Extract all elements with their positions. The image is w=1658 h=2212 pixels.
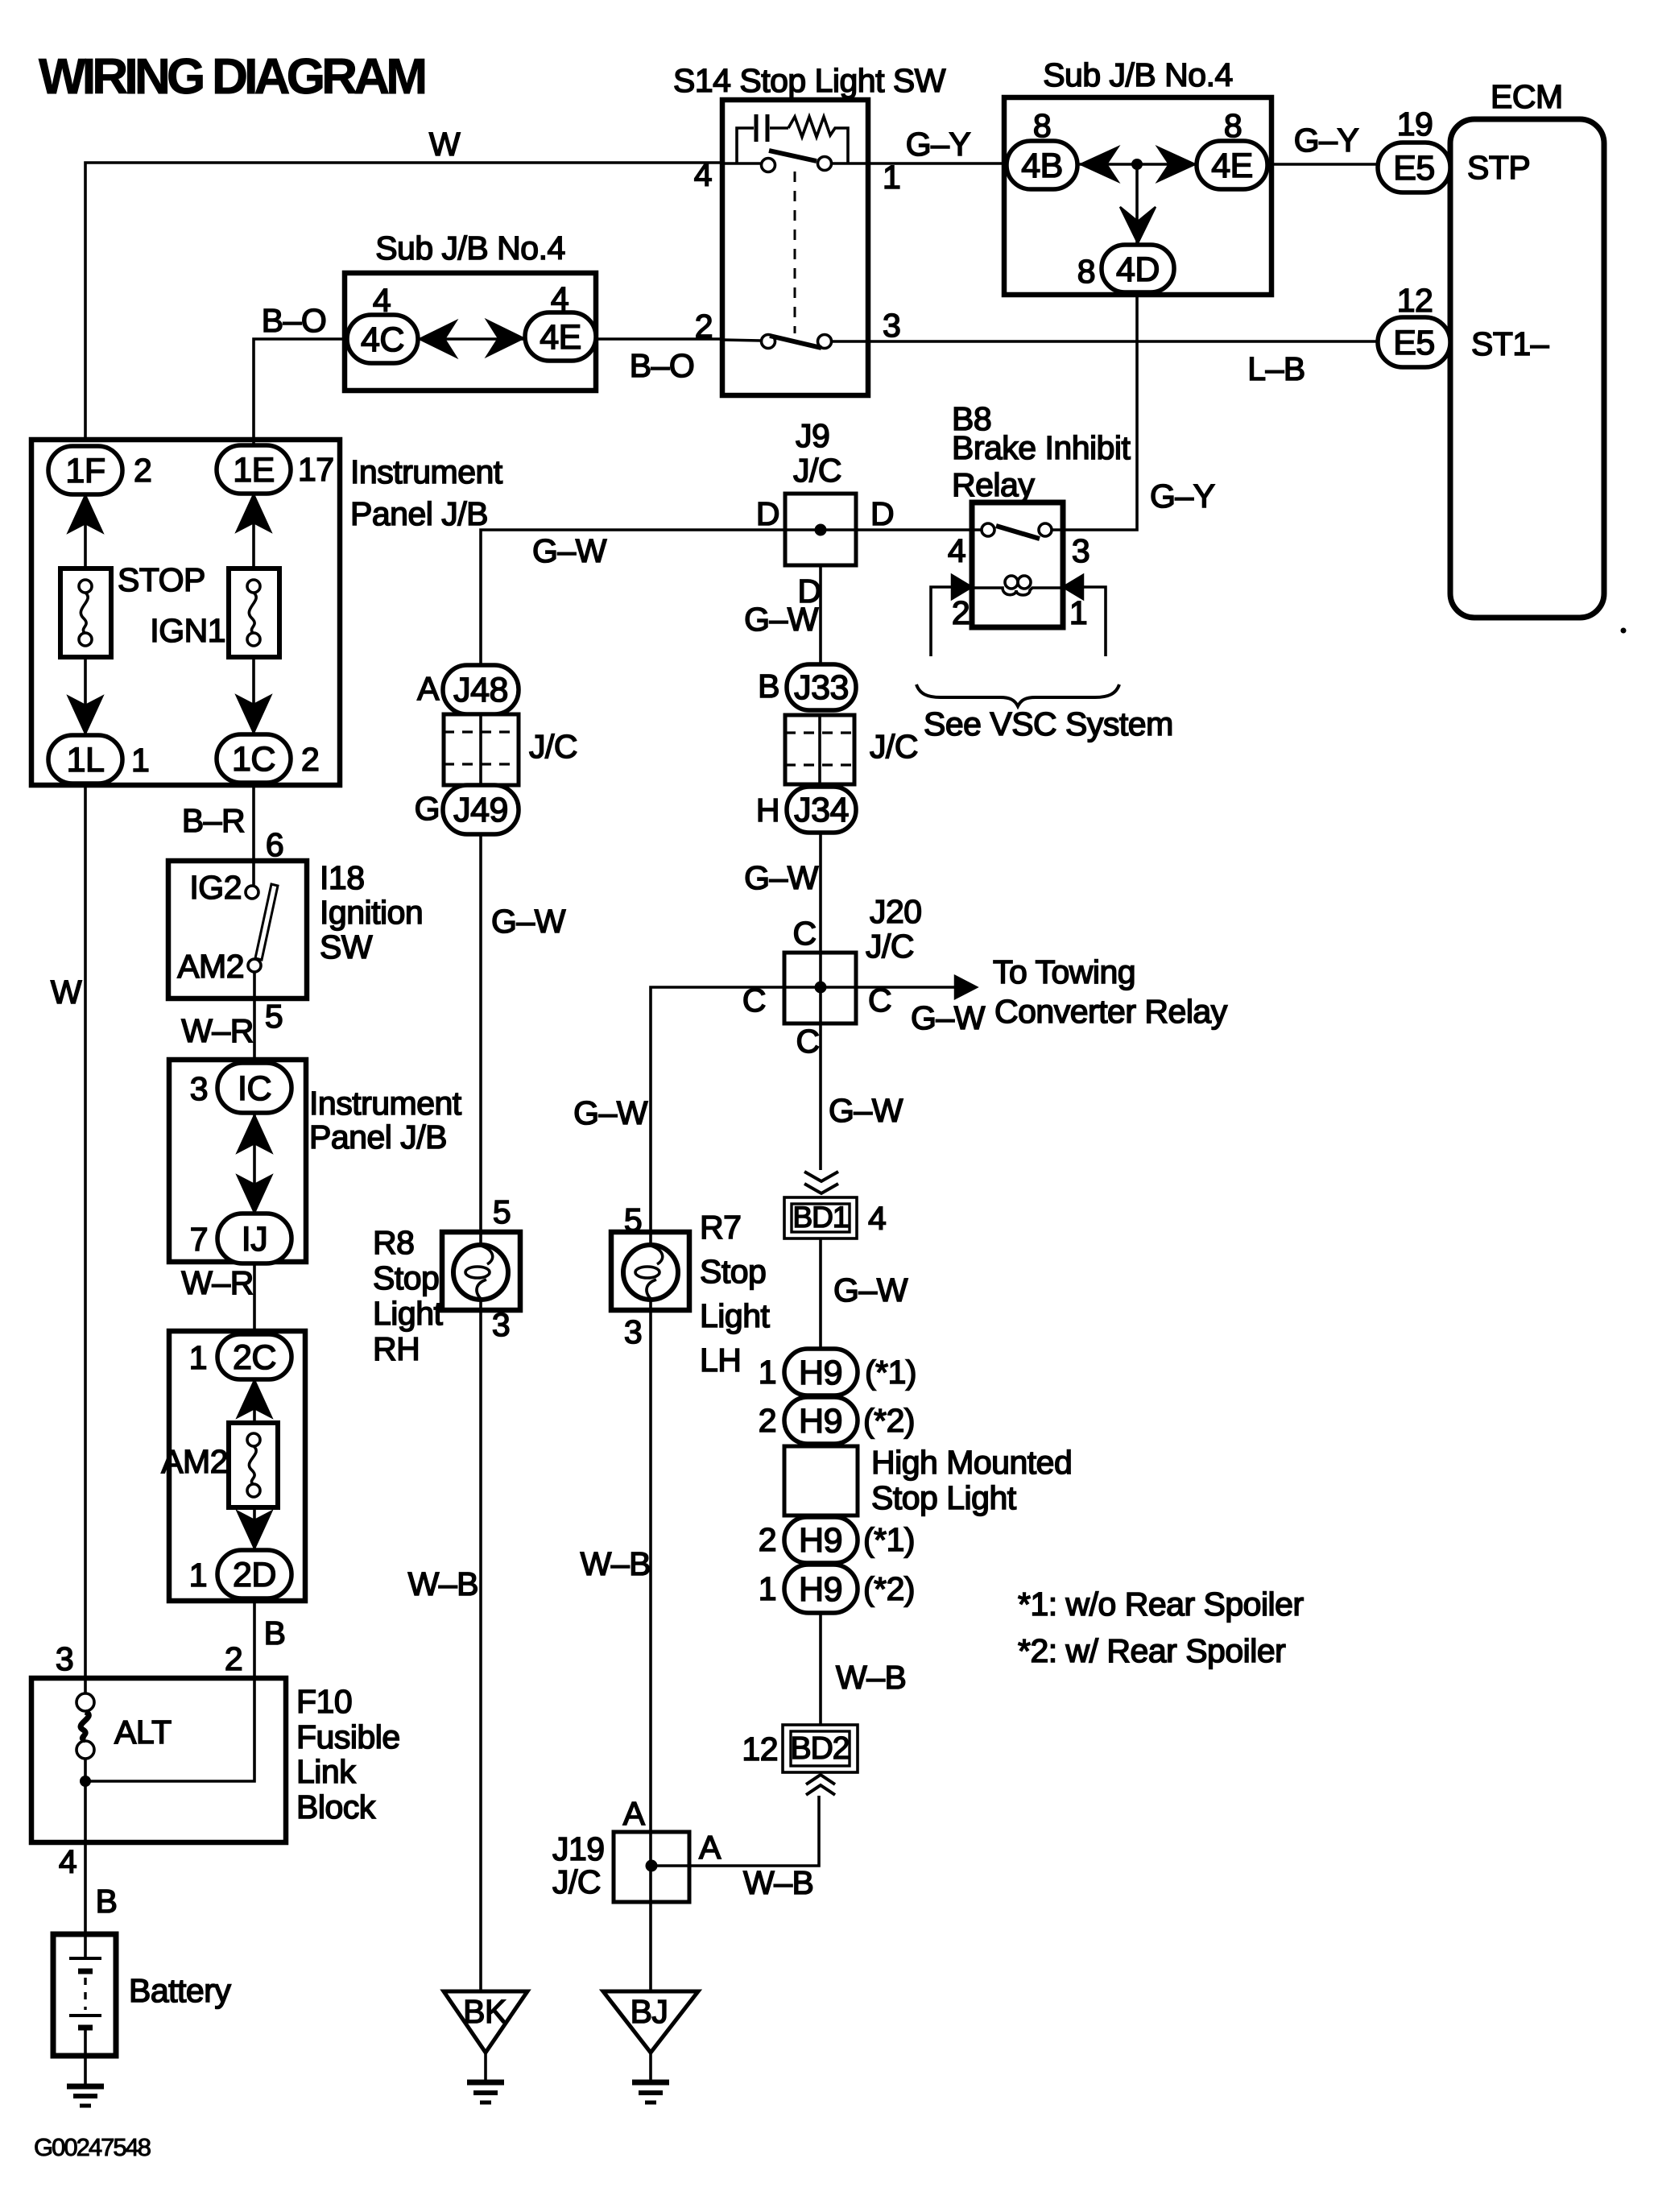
svg-text:RH: RH bbox=[373, 1330, 420, 1367]
wire G-W J20 to R7 bbox=[573, 987, 784, 1232]
svg-text:LH: LH bbox=[700, 1342, 741, 1379]
svg-text:G00247548: G00247548 bbox=[34, 2133, 151, 2161]
svg-text:BD1: BD1 bbox=[793, 1201, 849, 1234]
svg-text:19: 19 bbox=[1397, 105, 1433, 143]
wire AM2 fuse to 2D bbox=[253, 1507, 256, 1550]
svg-text:AM2: AM2 bbox=[177, 948, 244, 985]
svg-text:J/C: J/C bbox=[552, 1863, 601, 1900]
High Mounted Stop Light bbox=[784, 1444, 1072, 1516]
wire W-B H9 to BD2 bbox=[821, 1613, 906, 1725]
svg-text:J49: J49 bbox=[453, 791, 508, 829]
connector 1L pin 1 bbox=[48, 735, 149, 784]
svg-text:ALT: ALT bbox=[114, 1714, 172, 1751]
junction block J/C (J48/J49) bbox=[444, 714, 577, 785]
svg-text:4: 4 bbox=[551, 280, 569, 317]
svg-text:(*2): (*2) bbox=[863, 1402, 915, 1439]
wire 2C to AM2 fuse bbox=[253, 1379, 256, 1423]
svg-text:C: C bbox=[792, 915, 816, 952]
chevrons left-facing (4B side) bbox=[1081, 147, 1118, 181]
resistor (S14 snubber) bbox=[788, 117, 848, 163]
connector 4E pin 8 (right J/B) bbox=[1197, 107, 1267, 189]
svg-text:IGN1: IGN1 bbox=[150, 612, 225, 649]
connector arrow up (below 2C) bbox=[238, 1380, 271, 1417]
svg-text:2: 2 bbox=[759, 1402, 776, 1439]
contact AM2 bbox=[177, 948, 261, 985]
svg-text:WIRING DIAGRAM: WIRING DIAGRAM bbox=[39, 49, 424, 105]
svg-text:7: 7 bbox=[190, 1221, 208, 1258]
wire junction to 4D bbox=[1135, 164, 1139, 245]
svg-text:Ignition: Ignition bbox=[320, 894, 423, 931]
connector 4E pin 4 (left J/B) bbox=[525, 280, 596, 361]
svg-text:H9: H9 bbox=[799, 1402, 842, 1441]
wire G-Y S14 pin 1 to 4B bbox=[868, 126, 1007, 163]
connector 2D pin 1 bbox=[189, 1550, 291, 1598]
wire IC to IJ bbox=[253, 1113, 256, 1213]
ground (battery) bbox=[67, 2056, 104, 2106]
svg-text:B: B bbox=[758, 668, 779, 705]
svg-text:H9: H9 bbox=[799, 1521, 842, 1560]
wire B 2D to F10 pin 2 bbox=[56, 1598, 286, 1678]
lamp R8 Stop Light RH bbox=[373, 1193, 520, 1367]
wire G-W J49 to R8 bbox=[481, 834, 566, 1232]
wire AM2 to IC pin 5 bbox=[181, 972, 283, 1063]
svg-text:G–W: G–W bbox=[573, 1094, 648, 1131]
svg-text:J34: J34 bbox=[794, 791, 849, 829]
svg-text:4B: 4B bbox=[1021, 147, 1063, 185]
svg-text:R7: R7 bbox=[700, 1209, 741, 1246]
connector 4D pin 8 bbox=[1077, 245, 1174, 292]
svg-text:Brake Inhibit: Brake Inhibit bbox=[952, 429, 1131, 466]
svg-text:3: 3 bbox=[492, 1306, 510, 1343]
chevrons up (below BD2) bbox=[806, 1775, 835, 1795]
svg-text:B: B bbox=[96, 1883, 118, 1920]
svg-text:IC: IC bbox=[238, 1069, 271, 1108]
svg-text:4: 4 bbox=[694, 156, 712, 193]
contact IG2 bbox=[189, 869, 258, 906]
svg-text:W–R: W–R bbox=[181, 1264, 254, 1301]
fuse IGN1 bbox=[150, 569, 279, 657]
Sub J/B No.4 (left) bbox=[345, 229, 596, 391]
connector H9 pin 1 (*2) bbox=[759, 1565, 915, 1613]
connector arrow up (below IC) bbox=[238, 1115, 271, 1152]
svg-text:B–O: B–O bbox=[262, 302, 327, 339]
wire B-R 1C to I18 pin 6 bbox=[182, 783, 283, 863]
svg-text:Instrument: Instrument bbox=[309, 1085, 462, 1122]
wire IGN1 fuse to 1C bbox=[252, 657, 255, 734]
wire stubs S14 bottom row bbox=[722, 340, 868, 341]
svg-text:4E: 4E bbox=[1211, 147, 1253, 185]
svg-text:B–R: B–R bbox=[182, 802, 245, 839]
brace See VSC System bbox=[916, 684, 1173, 742]
svg-text:J20: J20 bbox=[870, 893, 922, 930]
wire STOP fuse to 1L bbox=[84, 657, 87, 735]
connector arrow up (below 1F) bbox=[68, 495, 102, 532]
svg-text:J/C: J/C bbox=[793, 452, 841, 489]
svg-text:Fusible: Fusible bbox=[296, 1718, 400, 1755]
svg-text:ST1–: ST1– bbox=[1471, 325, 1549, 362]
svg-text:Light: Light bbox=[373, 1295, 444, 1332]
svg-text:G–W: G–W bbox=[911, 999, 986, 1036]
svg-text:E5: E5 bbox=[1393, 149, 1435, 188]
svg-text:W: W bbox=[429, 126, 461, 163]
svg-text:W–R: W–R bbox=[181, 1012, 254, 1049]
chevrons left-facing (4C-4E) bbox=[420, 321, 456, 357]
wire stubs S14 top row bbox=[722, 162, 868, 165]
svg-text:J48: J48 bbox=[453, 671, 508, 709]
svg-text:1: 1 bbox=[759, 1354, 776, 1391]
junction J9 J/C bbox=[756, 417, 894, 610]
connector arrow down (above 1L) bbox=[68, 697, 102, 734]
wire L-B S14 pin 3 to ECM E5 pin 12 bbox=[868, 341, 1378, 387]
svg-text:2: 2 bbox=[225, 1640, 242, 1677]
svg-text:(*1): (*1) bbox=[865, 1354, 916, 1391]
svg-text:High Mounted: High Mounted bbox=[871, 1444, 1072, 1481]
connector IJ pin 7 bbox=[190, 1213, 291, 1263]
svg-text:5: 5 bbox=[493, 1193, 511, 1230]
wire G-W J20 to BD1 bbox=[821, 1023, 903, 1170]
svg-text:*2: w/ Rear Spoiler: *2: w/ Rear Spoiler bbox=[1018, 1632, 1285, 1669]
Instrument Panel J/B 2C/2D block bbox=[169, 1331, 305, 1601]
svg-text:G–Y: G–Y bbox=[1294, 122, 1359, 159]
svg-text:R8: R8 bbox=[373, 1224, 414, 1261]
svg-text:12: 12 bbox=[1397, 282, 1433, 319]
chevrons down-facing (above 4D) bbox=[1120, 207, 1156, 243]
svg-text:Relay: Relay bbox=[952, 466, 1035, 503]
svg-text:Link: Link bbox=[296, 1753, 356, 1790]
wire F10 internal from pin 2 to junction bbox=[85, 1678, 254, 1781]
connector J49 bbox=[415, 785, 519, 834]
connector IC pin 3 bbox=[190, 1063, 291, 1113]
connector J33 bbox=[758, 664, 856, 710]
fuse AM2 bbox=[161, 1423, 278, 1507]
relay contacts bbox=[972, 528, 1063, 531]
junction dot in F10 bbox=[80, 1776, 91, 1787]
svg-text:2C: 2C bbox=[233, 1338, 276, 1377]
connector J34 bbox=[756, 787, 856, 833]
svg-text:Light: Light bbox=[700, 1297, 771, 1334]
wire B-O 1E to 4C bbox=[254, 302, 345, 445]
svg-text:4: 4 bbox=[868, 1200, 886, 1237]
svg-text:1E: 1E bbox=[233, 451, 275, 490]
svg-text:2: 2 bbox=[134, 452, 151, 489]
svg-text:Panel J/B: Panel J/B bbox=[350, 495, 488, 532]
junction block J/C (J33/J34) bbox=[785, 715, 918, 784]
svg-text:1: 1 bbox=[189, 1339, 207, 1376]
connector BD2 pin 12 bbox=[742, 1725, 858, 1772]
Instrument Panel J/B (lower) box bbox=[169, 1060, 462, 1262]
svg-text:C: C bbox=[796, 1023, 819, 1060]
wire J9 to relay pin 4 bbox=[856, 528, 972, 531]
svg-text:5: 5 bbox=[265, 998, 283, 1035]
svg-text:4E: 4E bbox=[540, 318, 581, 357]
svg-text:1L: 1L bbox=[67, 741, 105, 779]
arrow to towing converter relay bbox=[856, 953, 1228, 1036]
connector 1C pin 2 bbox=[217, 734, 319, 783]
svg-text:E5: E5 bbox=[1393, 324, 1435, 362]
svg-text:1: 1 bbox=[189, 1557, 207, 1594]
wire W battery feed to S14 pin 4 bbox=[85, 126, 722, 446]
wire 4C to 4E internal bbox=[418, 337, 525, 341]
connector 4C pin 4 bbox=[347, 282, 418, 363]
svg-text:Converter Relay: Converter Relay bbox=[994, 993, 1228, 1030]
svg-text:SW: SW bbox=[320, 928, 373, 965]
wire G-W BD1 to H9 bbox=[821, 1238, 908, 1349]
svg-text:4: 4 bbox=[373, 282, 391, 319]
svg-text:L–B: L–B bbox=[1247, 350, 1304, 387]
svg-text:S14 Stop Light SW: S14 Stop Light SW bbox=[673, 62, 946, 99]
svg-text:2D: 2D bbox=[233, 1556, 276, 1594]
svg-text:IG2: IG2 bbox=[189, 869, 242, 906]
svg-text:3: 3 bbox=[883, 307, 900, 344]
svg-text:W–B: W–B bbox=[581, 1545, 651, 1582]
wire G-W J9 to J33 bbox=[744, 565, 821, 664]
svg-text:1: 1 bbox=[1069, 594, 1087, 631]
svg-text:G–W: G–W bbox=[833, 1271, 908, 1309]
svg-text:Stop: Stop bbox=[700, 1253, 766, 1290]
svg-text:A: A bbox=[417, 670, 440, 707]
ECM bbox=[1450, 78, 1604, 618]
connector J48 bbox=[417, 665, 519, 714]
svg-text:J19: J19 bbox=[552, 1830, 605, 1867]
wire G-W J9 to J48 bbox=[481, 530, 785, 665]
svg-text:*1: w/o Rear Spoiler: *1: w/o Rear Spoiler bbox=[1018, 1586, 1304, 1623]
connector 1E pin 17 bbox=[217, 445, 334, 494]
wire G-Y 4E to ECM E5 pin 19 bbox=[1267, 122, 1378, 164]
connector arrow up (below 1E) bbox=[237, 494, 271, 531]
relay coil stubs to VSC bbox=[931, 587, 952, 656]
svg-text:G–W: G–W bbox=[491, 903, 566, 940]
wire B-O 4E to S14 pin 2 bbox=[596, 339, 722, 384]
svg-text:2: 2 bbox=[759, 1521, 776, 1558]
junction J19 J/C bbox=[552, 1795, 721, 1902]
switch contacts S14 top bbox=[762, 159, 775, 172]
S14 Stop Light SW bbox=[673, 62, 946, 395]
svg-text:J/C: J/C bbox=[529, 728, 577, 765]
svg-text:ECM: ECM bbox=[1491, 78, 1563, 115]
svg-text:4C: 4C bbox=[361, 320, 404, 359]
svg-text:A: A bbox=[699, 1829, 721, 1866]
wire F10 internal left bbox=[84, 1678, 87, 1694]
connector arrow down (above IJ) bbox=[238, 1176, 271, 1213]
svg-text:B: B bbox=[264, 1615, 286, 1652]
svg-text:J9: J9 bbox=[796, 417, 829, 454]
svg-text:D: D bbox=[870, 495, 894, 532]
svg-text:G–W: G–W bbox=[744, 859, 819, 896]
svg-text:G–Y: G–Y bbox=[906, 126, 971, 163]
svg-text:8: 8 bbox=[1033, 107, 1051, 144]
wire W-B BD2 to J19 bbox=[651, 1796, 819, 1901]
fuse STOP bbox=[60, 561, 205, 657]
svg-text:STP: STP bbox=[1467, 149, 1530, 186]
wire W-R IJ to 2C bbox=[181, 1263, 254, 1334]
wire G-Y 4D to brake inhibit relay bbox=[1063, 292, 1215, 530]
svg-text:W–B: W–B bbox=[408, 1565, 478, 1602]
svg-text:STOP: STOP bbox=[118, 561, 205, 598]
relay coil arrows bbox=[952, 575, 972, 599]
junction dot (Sub J/B No.4) bbox=[1131, 159, 1143, 170]
svg-text:BJ: BJ bbox=[631, 1993, 668, 2030]
svg-text:W–B: W–B bbox=[743, 1864, 813, 1901]
svg-text:To Towing: To Towing bbox=[993, 953, 1135, 990]
svg-text:1: 1 bbox=[759, 1570, 776, 1607]
battery bbox=[53, 1934, 231, 2056]
connector H9 pin 1 (*1) bbox=[759, 1349, 916, 1395]
svg-text:Stop Light: Stop Light bbox=[871, 1479, 1017, 1516]
svg-text:12: 12 bbox=[742, 1730, 778, 1768]
svg-text:1: 1 bbox=[131, 742, 149, 779]
Sub J/B No.4 (right) bbox=[1004, 56, 1271, 295]
stray print dot bbox=[1621, 628, 1627, 634]
chevrons right-facing (4C-4E) bbox=[487, 320, 523, 356]
note rear spoiler bbox=[1018, 1586, 1304, 1669]
svg-text:H9: H9 bbox=[799, 1570, 842, 1609]
svg-text:3: 3 bbox=[1072, 532, 1089, 569]
svg-text:1F: 1F bbox=[65, 452, 105, 490]
svg-text:4: 4 bbox=[59, 1843, 76, 1880]
svg-text:Sub J/B No.4: Sub J/B No.4 bbox=[1043, 56, 1233, 93]
svg-text:Sub J/B No.4: Sub J/B No.4 bbox=[375, 229, 565, 267]
wire W-B R8 to BK ground bbox=[408, 1310, 481, 1991]
chevrons right-facing (4E side) bbox=[1158, 147, 1195, 181]
svg-text:4D: 4D bbox=[1116, 250, 1160, 289]
svg-text:G–Y: G–Y bbox=[1150, 478, 1215, 515]
svg-text:BK: BK bbox=[463, 1993, 506, 2030]
ground BJ bbox=[603, 1991, 698, 2102]
svg-text:Block: Block bbox=[296, 1788, 376, 1825]
svg-text:W: W bbox=[51, 974, 82, 1011]
svg-text:Instrument: Instrument bbox=[350, 453, 503, 490]
connector 4B pin 8 bbox=[1007, 107, 1077, 189]
dashed link S14 bbox=[794, 172, 796, 333]
svg-text:G–W: G–W bbox=[532, 532, 607, 569]
svg-text:8: 8 bbox=[1077, 253, 1095, 290]
relay blade bbox=[996, 526, 1040, 539]
svg-text:2: 2 bbox=[695, 308, 713, 345]
svg-text:A: A bbox=[623, 1795, 646, 1832]
switch blade I18 bbox=[255, 884, 278, 960]
fusible link ALT bbox=[76, 1693, 172, 1759]
svg-text:G–W: G–W bbox=[744, 601, 819, 638]
wire into IG2 contact bbox=[252, 861, 255, 886]
relay coil bbox=[972, 576, 1063, 595]
svg-text:F10: F10 bbox=[296, 1683, 352, 1720]
svg-text:G–W: G–W bbox=[829, 1092, 903, 1129]
svg-text:J/C: J/C bbox=[866, 928, 914, 965]
wire 1E to IGN1 fuse bbox=[252, 494, 255, 569]
connector arrow down (above 2D) bbox=[238, 1511, 271, 1548]
wire W 1L to F10 bbox=[51, 784, 85, 1678]
svg-text:IJ: IJ bbox=[242, 1220, 267, 1259]
svg-text:J33: J33 bbox=[794, 668, 849, 707]
svg-text:17: 17 bbox=[298, 451, 334, 488]
svg-text:Panel J/B: Panel J/B bbox=[309, 1118, 447, 1156]
svg-text:(*1): (*1) bbox=[863, 1521, 915, 1558]
F10 Fusible Link Block bbox=[31, 1678, 400, 1842]
wire G-W J34 to J20 bbox=[744, 833, 821, 953]
svg-text:3: 3 bbox=[190, 1070, 208, 1107]
connector H9 pin 2 (*2) bbox=[759, 1397, 915, 1444]
chevrons down (above BD1) bbox=[804, 1172, 838, 1193]
svg-text:4: 4 bbox=[948, 532, 965, 569]
connector 2C pin 1 bbox=[189, 1334, 291, 1379]
svg-text:2: 2 bbox=[952, 594, 970, 631]
svg-text:I18: I18 bbox=[320, 859, 365, 896]
svg-text:G: G bbox=[415, 790, 440, 827]
switch blade S14 bottom bbox=[770, 336, 821, 348]
connector E5 pin 19 bbox=[1378, 105, 1450, 192]
svg-text:3: 3 bbox=[56, 1640, 73, 1677]
I18 Ignition SW bbox=[168, 859, 423, 999]
connector E5 pin 12 bbox=[1378, 282, 1450, 367]
switch blade S14 top bbox=[769, 151, 817, 161]
svg-text:BD2: BD2 bbox=[791, 1731, 850, 1766]
wire 4B to 4E internal bbox=[1077, 163, 1197, 166]
svg-text:6: 6 bbox=[266, 826, 283, 863]
svg-text:8: 8 bbox=[1224, 107, 1242, 144]
svg-text:AM2: AM2 bbox=[161, 1443, 228, 1480]
relay B8 Brake Inhibit Relay bbox=[952, 400, 1131, 627]
svg-text:2: 2 bbox=[301, 741, 319, 778]
lamp R7 Stop Light LH bbox=[611, 1201, 771, 1379]
Instrument Panel J/B (upper) box bbox=[31, 440, 503, 785]
junction J20 J/C bbox=[742, 893, 922, 1060]
ground BK bbox=[444, 1991, 527, 2102]
svg-text:Battery: Battery bbox=[129, 1972, 231, 2009]
svg-text:J/C: J/C bbox=[870, 728, 918, 765]
svg-text:See VSC System: See VSC System bbox=[924, 705, 1173, 742]
svg-text:1C: 1C bbox=[232, 740, 275, 779]
capacitor (S14 snubber) bbox=[737, 114, 788, 163]
svg-text:B–O: B–O bbox=[630, 347, 695, 384]
svg-text:W–B: W–B bbox=[836, 1659, 906, 1696]
wire 1F to STOP fuse bbox=[84, 494, 87, 569]
wire B F10 pin 4 to battery bbox=[59, 1842, 118, 1934]
connector arrow down (above 1C) bbox=[237, 696, 271, 733]
svg-text:3: 3 bbox=[624, 1313, 642, 1350]
svg-text:H9: H9 bbox=[799, 1354, 842, 1392]
svg-text:(*2): (*2) bbox=[863, 1570, 915, 1607]
switch contacts S14 bottom bbox=[762, 335, 775, 349]
svg-text:5: 5 bbox=[624, 1201, 642, 1238]
svg-text:D: D bbox=[756, 495, 779, 532]
wire W-B R7 to J19 bbox=[581, 1310, 651, 1991]
svg-text:H: H bbox=[756, 792, 779, 829]
connector H9 pin 2 (*1) bbox=[759, 1517, 915, 1563]
svg-text:Stop: Stop bbox=[373, 1259, 439, 1296]
connector BD1 pin 4 bbox=[784, 1197, 886, 1238]
connector 1F pin 2 bbox=[48, 446, 151, 494]
